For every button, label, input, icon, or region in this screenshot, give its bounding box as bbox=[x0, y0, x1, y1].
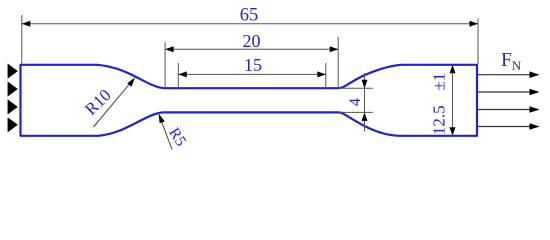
svg-text:65: 65 bbox=[240, 5, 259, 25]
force arrow 3 bbox=[477, 109, 531, 111]
svg-text:4: 4 bbox=[347, 98, 364, 106]
dim 15: extension line left bbox=[177, 63, 179, 89]
dim 20: left arrowhead bbox=[165, 46, 174, 52]
svg-text:12.5: 12.5 bbox=[429, 105, 448, 135]
force arrow 4 bbox=[477, 126, 531, 128]
dim 65: left arrowhead bbox=[22, 21, 31, 27]
force arrow 1 bbox=[477, 74, 531, 76]
dim 4: extension line bottom bbox=[339, 111, 373, 113]
dim 12.5±1: dimension line vertical bbox=[452, 65, 454, 136]
svg-text:F: F bbox=[501, 50, 512, 71]
leader R10: arrowhead bbox=[127, 78, 135, 87]
dim 65: right arrowhead bbox=[470, 21, 479, 27]
dim 65: extension line right bbox=[477, 19, 479, 65]
dim 15: right arrowhead bbox=[317, 71, 326, 77]
leader R5: arrowhead bbox=[159, 114, 165, 124]
dim 4: upper arrowhead pointing down bbox=[362, 80, 368, 89]
wall triangle 3 bbox=[8, 99, 18, 114]
dim 20: extension line left bbox=[164, 42, 166, 89]
dim 65: extension line left bbox=[21, 15, 23, 64]
svg-text:±1: ±1 bbox=[429, 73, 448, 91]
dim 12.5±1: bottom arrowhead bbox=[450, 127, 456, 136]
leader R5: line bbox=[160, 118, 172, 150]
dim 15: dimension line bbox=[178, 73, 325, 75]
wall triangle 1 bbox=[8, 64, 18, 79]
svg-text:20: 20 bbox=[243, 31, 261, 51]
dim 15: extension line right bbox=[325, 63, 327, 89]
dim 20: right arrowhead bbox=[330, 46, 339, 52]
wall triangle 4 bbox=[8, 117, 18, 132]
dim 15: left arrowhead bbox=[178, 71, 187, 77]
leader R10: line bbox=[94, 81, 133, 127]
specimen outline (blue dog-bone) bbox=[21, 65, 478, 136]
force arrow 2 bbox=[477, 91, 531, 93]
svg-text:15: 15 bbox=[244, 55, 262, 75]
dim 65: dimension line bbox=[22, 23, 478, 25]
dim 4: dimension line vertical bbox=[364, 73, 366, 132]
wall triangle 2 bbox=[8, 81, 18, 96]
svg-text:N: N bbox=[512, 58, 522, 73]
dim 4: extension line top bbox=[339, 87, 373, 89]
dim 20: extension line right bbox=[337, 37, 339, 89]
dim 4: lower arrowhead pointing up bbox=[362, 112, 368, 121]
dim 12.5±1: top arrowhead bbox=[450, 65, 456, 74]
dim 20: dimension line bbox=[165, 48, 338, 50]
